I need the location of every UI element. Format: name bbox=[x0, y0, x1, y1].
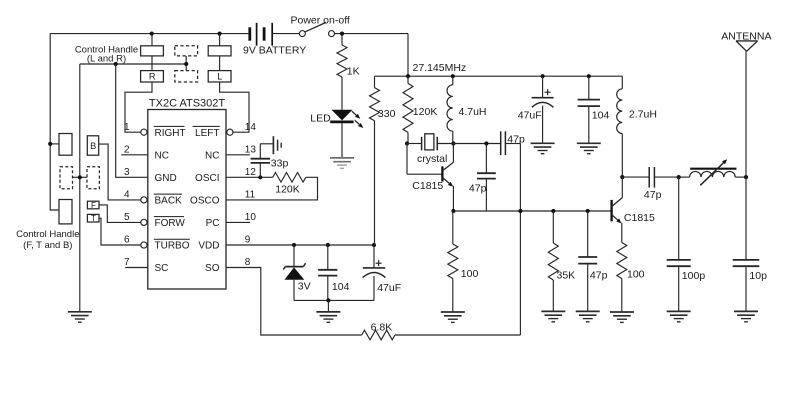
svg-text:ANTENNA: ANTENNA bbox=[721, 30, 771, 42]
svg-text:TX2C ATS302T: TX2C ATS302T bbox=[149, 98, 225, 110]
svg-text:NC: NC bbox=[155, 150, 169, 161]
svg-text:OSCI: OSCI bbox=[195, 173, 219, 184]
svg-text:SO: SO bbox=[205, 263, 220, 274]
svg-text:1K: 1K bbox=[347, 66, 360, 78]
svg-text:9: 9 bbox=[245, 235, 251, 246]
svg-text:12: 12 bbox=[245, 167, 257, 178]
svg-text:100: 100 bbox=[461, 268, 479, 280]
svg-text:3V: 3V bbox=[298, 281, 311, 293]
svg-text:47p: 47p bbox=[469, 183, 487, 195]
svg-text:120K: 120K bbox=[275, 183, 300, 195]
svg-text:6: 6 bbox=[124, 235, 130, 246]
svg-text:14: 14 bbox=[245, 122, 257, 133]
svg-text:7: 7 bbox=[124, 257, 130, 268]
svg-text:5: 5 bbox=[124, 212, 130, 223]
svg-text:47uF: 47uF bbox=[518, 110, 542, 122]
svg-text:2.7uH: 2.7uH bbox=[629, 109, 657, 121]
svg-text:LED: LED bbox=[310, 113, 331, 125]
svg-text:47p: 47p bbox=[644, 189, 662, 201]
svg-text:3: 3 bbox=[124, 167, 130, 178]
svg-text:OSCO: OSCO bbox=[190, 196, 220, 207]
svg-text:13: 13 bbox=[245, 144, 257, 155]
svg-text:33p: 33p bbox=[271, 158, 289, 170]
svg-text:RIGHT: RIGHT bbox=[155, 128, 186, 139]
svg-text:VDD: VDD bbox=[198, 241, 219, 252]
svg-text:2: 2 bbox=[124, 144, 130, 155]
svg-text:6.8K: 6.8K bbox=[371, 322, 393, 334]
svg-text:(L and R): (L and R) bbox=[87, 54, 126, 65]
svg-text:FORW: FORW bbox=[155, 218, 186, 229]
svg-text:crystal: crystal bbox=[417, 153, 447, 165]
svg-text:B: B bbox=[90, 141, 96, 151]
svg-text:R: R bbox=[149, 72, 156, 82]
svg-text:10: 10 bbox=[245, 212, 257, 223]
svg-text:Control Handle: Control Handle bbox=[16, 229, 79, 240]
svg-text:(F, T and B): (F, T and B) bbox=[23, 240, 72, 251]
svg-text:47uF: 47uF bbox=[377, 282, 401, 294]
svg-text:35K: 35K bbox=[557, 270, 576, 282]
svg-text:120K: 120K bbox=[413, 106, 438, 118]
svg-text:27.145MHz: 27.145MHz bbox=[413, 62, 467, 74]
svg-text:BACK: BACK bbox=[155, 196, 183, 207]
svg-text:100: 100 bbox=[627, 269, 645, 281]
svg-text:47p: 47p bbox=[507, 133, 525, 145]
svg-text:NC: NC bbox=[205, 150, 219, 161]
svg-text:104: 104 bbox=[592, 110, 610, 122]
svg-text:8: 8 bbox=[245, 257, 251, 268]
svg-text:1: 1 bbox=[124, 122, 130, 133]
svg-text:11: 11 bbox=[245, 190, 256, 201]
svg-text:10p: 10p bbox=[749, 270, 767, 282]
svg-text:GND: GND bbox=[155, 173, 177, 184]
svg-text:TURBO: TURBO bbox=[155, 241, 190, 252]
svg-text:SC: SC bbox=[155, 263, 169, 274]
svg-text:104: 104 bbox=[332, 281, 350, 293]
svg-text:C1815: C1815 bbox=[412, 180, 443, 192]
svg-text:100p: 100p bbox=[682, 270, 706, 282]
svg-text:PC: PC bbox=[206, 218, 220, 229]
svg-text:T: T bbox=[91, 214, 96, 223]
svg-text:L: L bbox=[217, 72, 222, 82]
svg-text:330: 330 bbox=[378, 108, 396, 120]
svg-text:47p: 47p bbox=[590, 270, 608, 282]
svg-text:C1815: C1815 bbox=[624, 212, 655, 224]
svg-text:4.7uH: 4.7uH bbox=[459, 106, 487, 118]
svg-text:LEFT: LEFT bbox=[195, 128, 219, 139]
svg-text:Power on-off: Power on-off bbox=[291, 15, 350, 27]
svg-text:4: 4 bbox=[124, 190, 130, 201]
svg-text:9V BATTERY: 9V BATTERY bbox=[243, 45, 306, 57]
svg-text:F: F bbox=[91, 201, 96, 210]
